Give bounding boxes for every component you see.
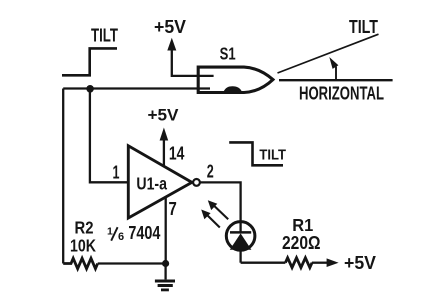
resistor R1 [282,215,321,268]
output bubble [193,179,200,186]
svg-text:S1: S1 [220,44,236,64]
waveform tilt falling edge (mid right) [229,142,283,165]
svg-text:+5V: +5V [344,253,376,273]
+5V supply arrow (inverter pin 14) [148,106,180,167]
svg-text:220Ω: 220Ω [282,233,321,253]
svg-text:R1: R1 [292,215,313,235]
LED emission arrow upper [208,200,228,219]
svg-text:7: 7 [169,199,177,219]
svg-text:1: 1 [107,226,113,238]
svg-text:TILT: TILT [259,147,286,164]
svg-text:7404: 7404 [128,222,161,243]
wire LED to R1 [241,262,286,264]
LED emission arrow lower [201,210,220,228]
tilt reference line (angled) [278,34,379,73]
angle indicator arrow [329,57,338,80]
waveform tilt rising edge (top left) [62,48,117,75]
svg-text:14: 14 [169,144,185,164]
pin 7 wire to ground [165,197,167,264]
horizontal reference line [279,79,393,81]
+5V supply arrow (switch) [154,17,214,76]
switch S1 (mercury tilt switch) [198,44,273,93]
ground [155,264,175,290]
svg-text:+5V: +5V [148,106,180,125]
svg-text:TILT: TILT [91,25,118,46]
svg-text:R2: R2 [75,218,94,238]
svg-text:+5V: +5V [154,17,186,37]
wire left vertical [62,89,64,264]
svg-text:TILT: TILT [349,16,379,37]
svg-text:HORIZONTAL: HORIZONTAL [299,83,384,104]
svg-text:10K: 10K [70,236,96,256]
node junction at top wire [86,85,94,93]
wire main top horizontal [63,87,210,89]
wire junction to inverter input [90,89,128,183]
inverter U1-a (7404 gate) [128,146,192,218]
wire output to LED [200,182,241,221]
resistor R2 [63,218,97,269]
svg-text:1: 1 [113,162,120,182]
+5V arrow (right) [312,253,376,273]
svg-text:6: 6 [118,231,124,243]
LED indicator [226,222,255,263]
wire bottom horizontal [98,262,166,264]
node junction at ground [162,260,169,267]
svg-text:U1-a: U1-a [136,174,167,194]
svg-text:2: 2 [207,161,214,181]
